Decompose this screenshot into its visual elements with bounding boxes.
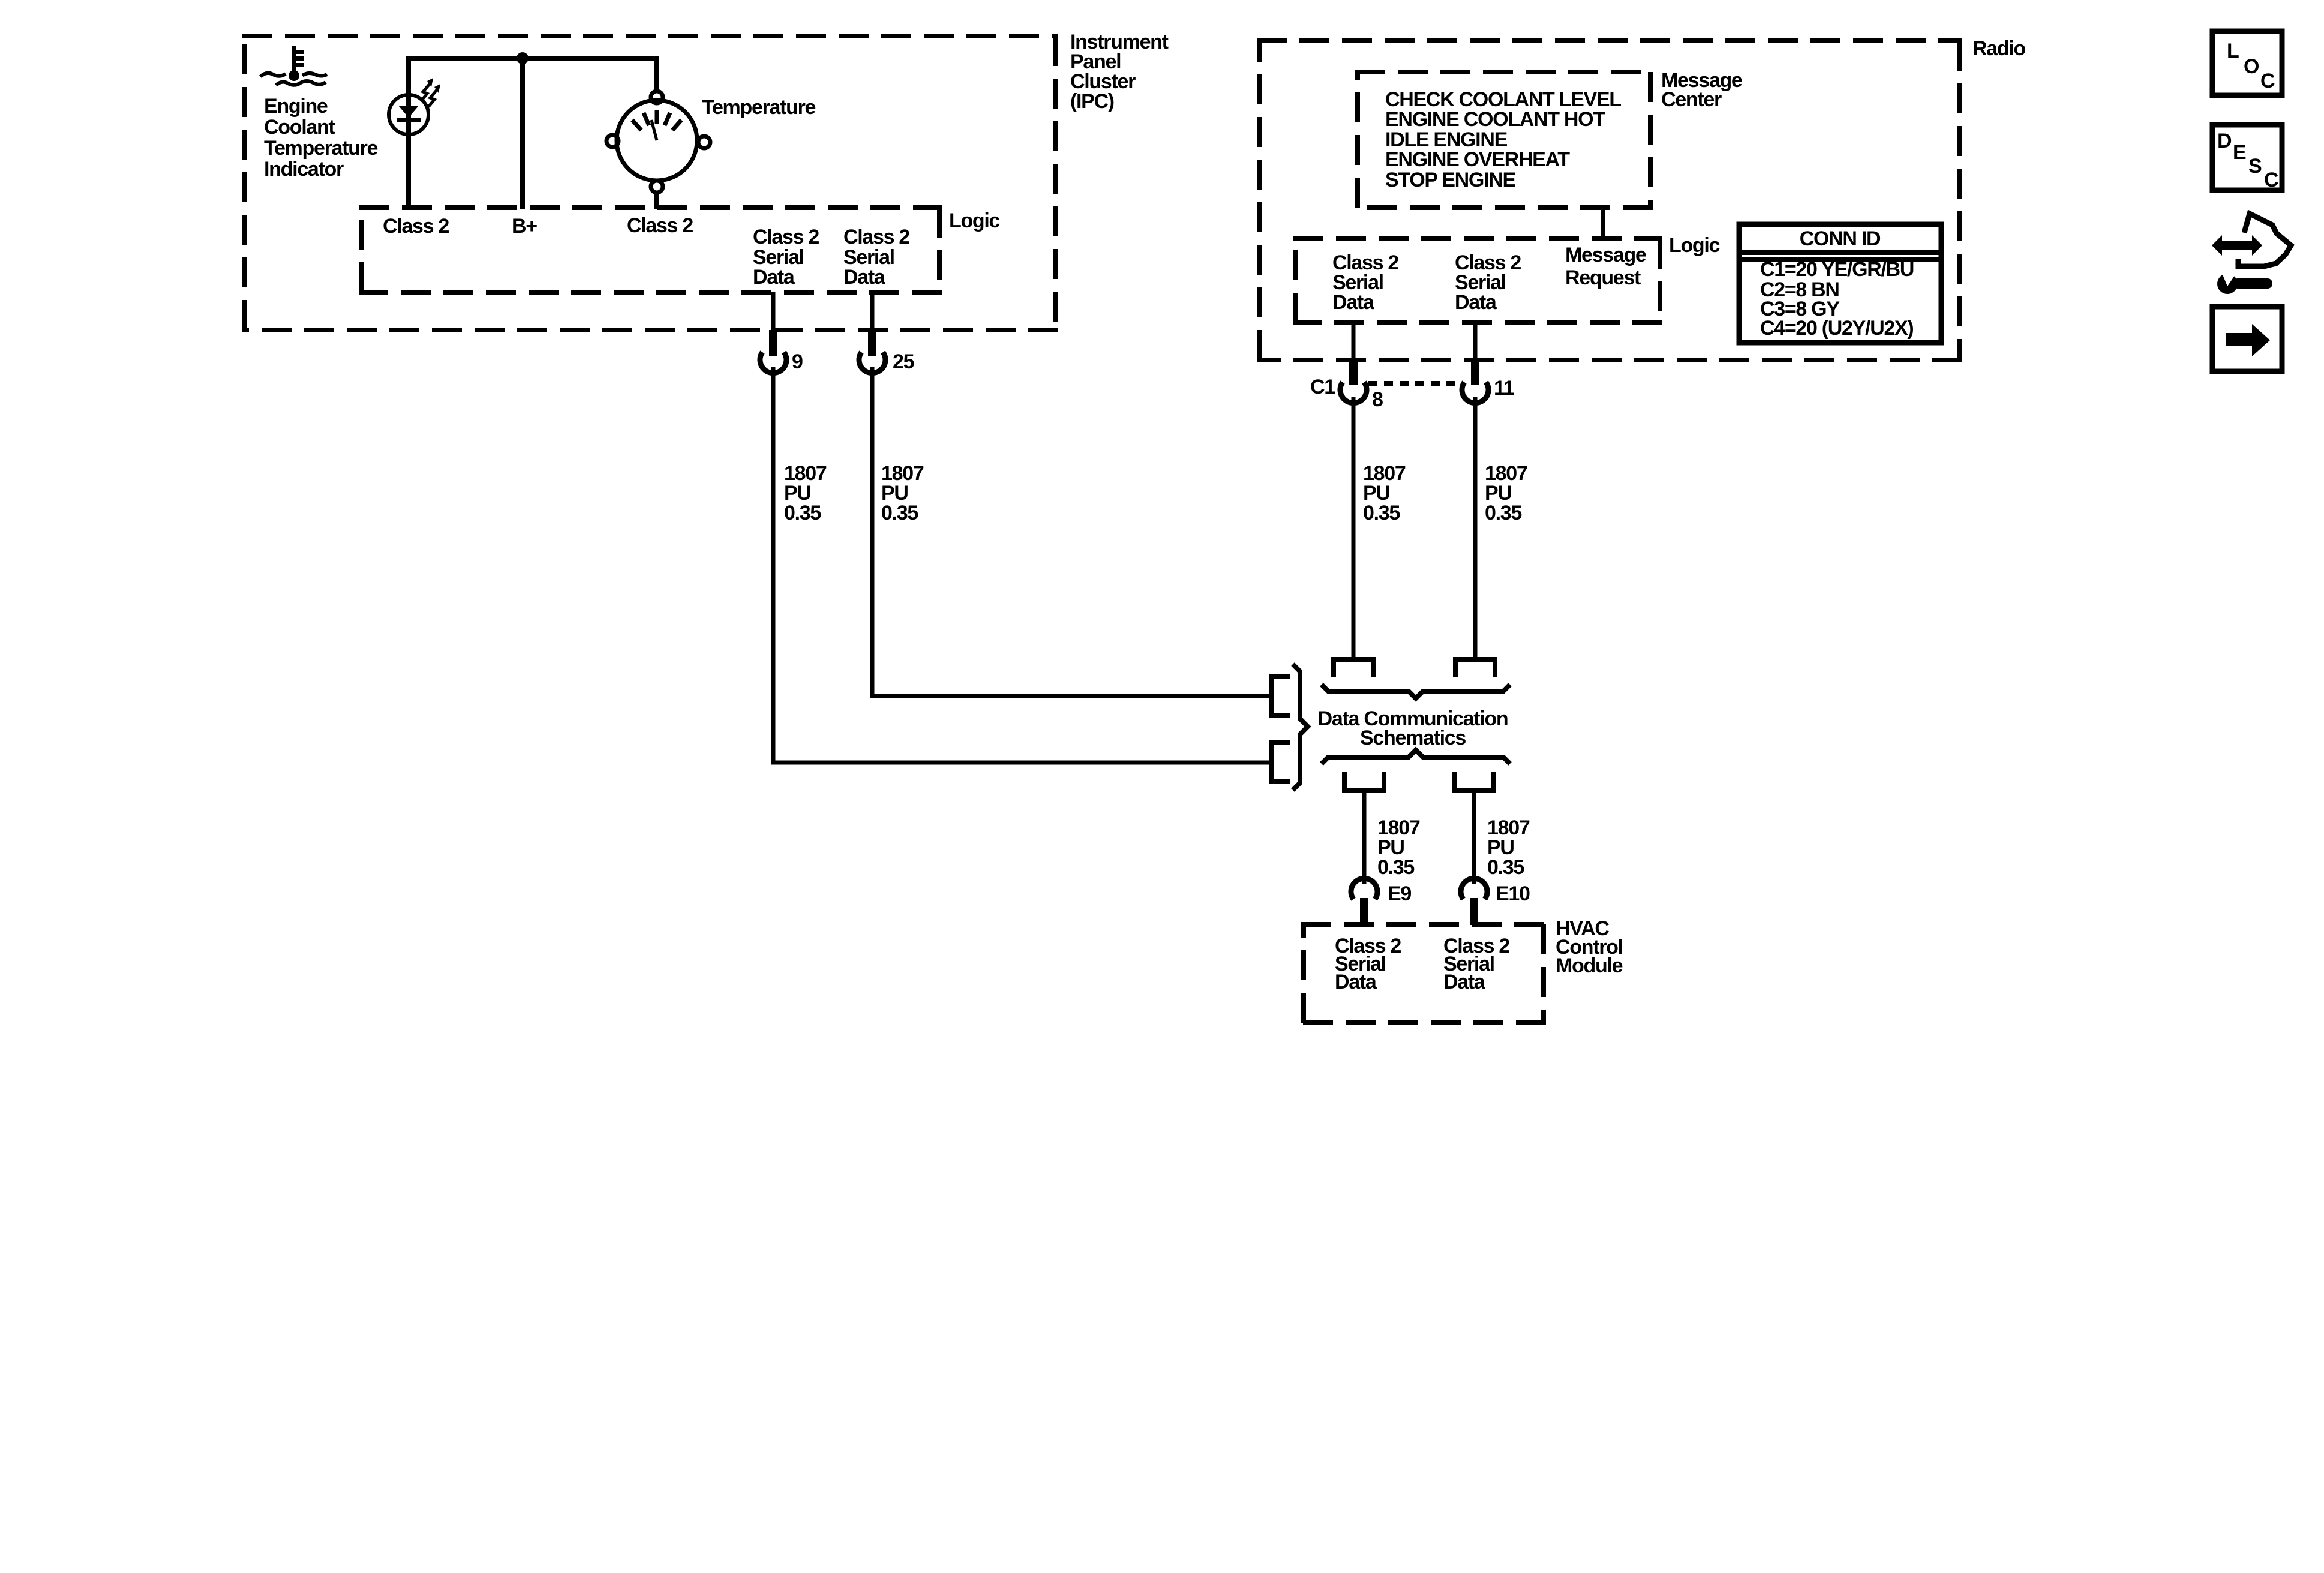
pin stub E10	[1470, 898, 1478, 925]
svg-text:Schematics: Schematics	[1360, 727, 1466, 749]
pin stub 11	[1471, 358, 1479, 385]
label wire 1807 PU 0.35 (pin 8)	[1363, 462, 1406, 524]
icon engine coolant temperature indicator (thermometer in coolant)	[289, 46, 304, 81]
label wire 1807 PU 0.35 (E9)	[1377, 816, 1420, 879]
svg-text:Logic: Logic	[1669, 234, 1720, 257]
svg-text:0.35: 0.35	[881, 502, 918, 524]
brace horizontal bottom (points up)	[1322, 750, 1510, 764]
svg-text:Data: Data	[753, 266, 795, 289]
dashed link between connector C1 terminals	[1368, 381, 1460, 386]
svg-text:O: O	[2244, 55, 2259, 78]
svg-text:Class 2: Class 2	[843, 226, 909, 248]
label Class 2 Serial Data (IPC pin 25)	[843, 226, 909, 289]
box Radio dashed outline	[1257, 41, 1962, 360]
wire IPC pin 25 lead inside box	[870, 292, 875, 332]
connector terminal C1-8 arc	[1340, 382, 1367, 403]
svg-text:B+: B+	[512, 215, 537, 238]
off-page tab for radio pin 11 wire	[1455, 659, 1495, 677]
box Instrument Panel Cluster (IPC) dashed outline	[242, 36, 1058, 330]
label wire 1807 PU 0.35 (pin 11)	[1485, 462, 1527, 524]
svg-text:0.35: 0.35	[1363, 502, 1400, 524]
off-page tab for HVAC E10 wire	[1454, 772, 1494, 791]
svg-text:C: C	[2264, 169, 2278, 191]
svg-text:0.35: 0.35	[1377, 856, 1414, 879]
node junction dot on B+ branch	[517, 52, 529, 64]
svg-text:Logic: Logic	[949, 209, 1000, 232]
brace vertical (points right)	[1293, 664, 1308, 790]
svg-text:Class 2: Class 2	[383, 215, 449, 238]
svg-text:11: 11	[1494, 377, 1514, 400]
box Message Center dashed outline	[1355, 72, 1653, 208]
svg-text:Data: Data	[1455, 291, 1497, 314]
svg-text:Radio: Radio	[1972, 37, 2025, 60]
label wire 1807 PU 0.35 (pin 9)	[784, 462, 827, 524]
wire LED branch vertical	[406, 56, 411, 209]
wire 1807 PU from IPC pin 25	[872, 367, 1270, 696]
svg-text:Request: Request	[1565, 266, 1641, 289]
icon vehicle data link (double arrow, vehicle outline, wrench)	[2212, 214, 2291, 294]
pin stub 9	[769, 330, 777, 356]
wire 1807 PU from IPC pin 9	[773, 367, 1270, 763]
svg-text:Temperature: Temperature	[264, 137, 378, 160]
connector terminal E10 arc (opens down)	[1461, 878, 1487, 899]
wire radio pin 8 lead inside box	[1352, 323, 1356, 359]
svg-text:0.35: 0.35	[784, 502, 821, 524]
svg-text:S: S	[2248, 155, 2262, 178]
box Radio Logic dashed outline	[1293, 239, 1662, 323]
svg-text:C4=20 (U2Y/U2X): C4=20 (U2Y/U2X)	[1760, 317, 1913, 340]
svg-text:E: E	[2233, 141, 2246, 164]
wire radio pin 11 lead inside box	[1473, 323, 1478, 359]
svg-text:Data: Data	[1443, 971, 1486, 993]
svg-text:0.35: 0.35	[1485, 502, 1521, 524]
table CONN ID	[1739, 224, 1941, 343]
indicator LED lamp symbol	[389, 78, 440, 134]
label Class 2 Serial Data (IPC pin 9)	[753, 226, 819, 289]
svg-text:Module: Module	[1556, 954, 1623, 977]
wire 1807 PU to HVAC E9	[1362, 791, 1367, 884]
off-page tab for pin 9 wire	[1272, 743, 1290, 782]
label Data Communication Schematics	[1318, 707, 1508, 749]
icon LOC button	[2212, 31, 2282, 95]
wire gauge branch vertical bottom	[654, 193, 659, 209]
label message center text lines	[1385, 88, 1621, 191]
wire 1807 PU to HVAC E10	[1472, 791, 1476, 884]
icon next-page arrow button	[2212, 307, 2282, 371]
wire 1807 PU from radio pin 8	[1352, 397, 1356, 661]
off-page tab for radio pin 8 wire	[1334, 659, 1373, 677]
svg-text:CONN ID: CONN ID	[1800, 227, 1881, 250]
svg-text:Engine: Engine	[264, 95, 328, 118]
icon DESC button	[2212, 125, 2282, 191]
connector terminal 9 arc	[760, 352, 786, 373]
label Class 2 Serial Data (Radio pin 8)	[1332, 251, 1398, 314]
connector terminal 25 arc	[859, 352, 885, 373]
label Class 2 Serial Data (HVAC E9)	[1335, 935, 1401, 993]
svg-text:Message: Message	[1565, 244, 1646, 266]
svg-text:C: C	[2260, 70, 2275, 92]
svg-text:C1=20 YE/GR/BU: C1=20 YE/GR/BU	[1760, 258, 1914, 281]
gauge Temperature symbol	[606, 91, 710, 193]
label Class 2 Serial Data (HVAC E10)	[1443, 935, 1509, 993]
label Message Center	[1661, 69, 1742, 111]
svg-text:E9: E9	[1388, 882, 1411, 905]
label Message Request	[1565, 244, 1646, 289]
wire top horizontal bus	[409, 56, 657, 61]
svg-text:Indicator: Indicator	[264, 158, 344, 181]
svg-text:Data: Data	[1332, 291, 1375, 314]
label wire 1807 PU 0.35 (pin 25)	[881, 462, 924, 524]
svg-text:Coolant: Coolant	[264, 116, 335, 139]
box IPC Logic dashed outline	[359, 208, 942, 292]
svg-text:Class 2: Class 2	[627, 214, 693, 237]
off-page tab for pin 25 wire	[1272, 676, 1290, 715]
pin stub E9	[1360, 898, 1368, 925]
svg-text:(IPC): (IPC)	[1070, 90, 1114, 113]
wire B+ branch vertical	[520, 58, 525, 209]
connector terminal E9 arc (opens down)	[1351, 878, 1377, 899]
svg-text:Data: Data	[1335, 971, 1377, 993]
svg-text:25: 25	[893, 350, 914, 373]
wire gauge branch vertical top	[654, 56, 659, 91]
svg-text:Center: Center	[1661, 88, 1722, 111]
svg-text:9: 9	[792, 350, 803, 373]
label wire 1807 PU 0.35 (E10)	[1487, 816, 1530, 879]
svg-text:D: D	[2217, 130, 2232, 152]
pin stub 25	[868, 330, 876, 356]
svg-text:Data: Data	[843, 266, 886, 289]
svg-text:STOP ENGINE: STOP ENGINE	[1385, 169, 1515, 191]
svg-text:L: L	[2227, 40, 2239, 62]
wire IPC pin 9 lead inside box	[771, 292, 776, 332]
svg-text:E10: E10	[1496, 882, 1530, 905]
connector terminal C1-11 arc	[1462, 382, 1488, 403]
label Engine Coolant Temperature Indicator	[264, 95, 378, 181]
svg-text:ENGINE OVERHEAT: ENGINE OVERHEAT	[1385, 148, 1570, 171]
vehicle outline	[2238, 214, 2291, 266]
wire 1807 PU from radio pin 11	[1473, 397, 1478, 661]
svg-text:8: 8	[1372, 388, 1383, 411]
double-headed arrow	[2212, 235, 2262, 256]
wire message request	[1601, 208, 1605, 239]
svg-text:C1: C1	[1310, 376, 1335, 398]
label Class 2 Serial Data (Radio pin 11)	[1455, 251, 1521, 314]
svg-text:Temperature: Temperature	[702, 96, 816, 119]
svg-text:Class 2: Class 2	[753, 226, 819, 248]
off-page tab for HVAC E9 wire	[1344, 772, 1384, 791]
box HVAC Control Module dashed outline	[1301, 924, 1546, 1023]
label HVAC Control Module	[1556, 917, 1623, 977]
pin stub 8	[1349, 358, 1358, 385]
brace horizontal top (points down)	[1322, 685, 1510, 698]
svg-text:ENGINE COOLANT HOT: ENGINE COOLANT HOT	[1385, 108, 1605, 131]
svg-text:0.35: 0.35	[1487, 856, 1524, 879]
label Instrument Panel Cluster (IPC)	[1070, 31, 1169, 113]
wrench	[2217, 274, 2272, 294]
